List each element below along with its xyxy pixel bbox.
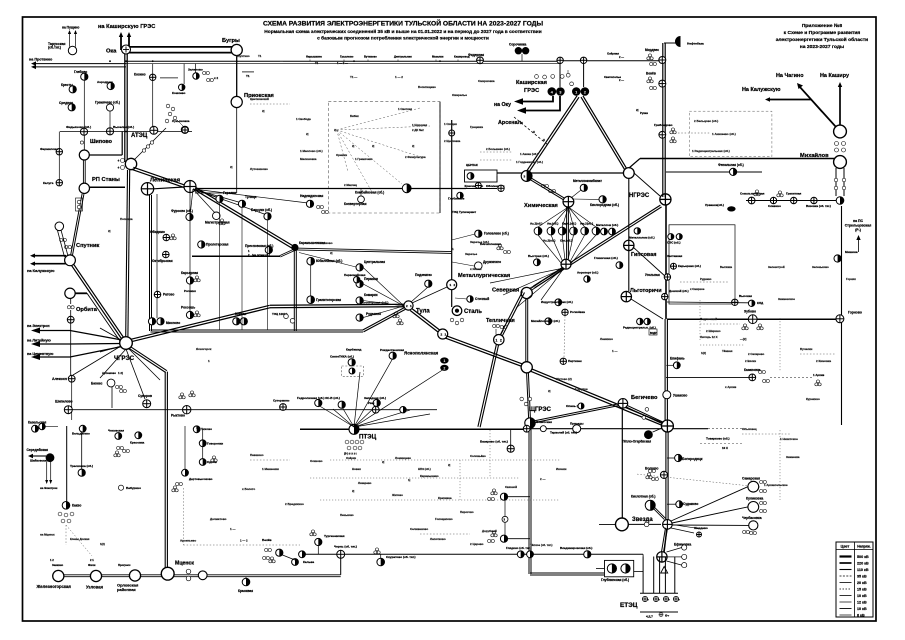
svg-text:Южная: Южная	[235, 312, 246, 316]
Ushakovo	[663, 391, 671, 399]
svg-text:х Смирное: х Смирное	[690, 287, 705, 291]
svg-text:Рыктово: Рыктово	[171, 414, 185, 418]
svg-text:1 —: 1 —	[612, 349, 617, 353]
Kashirskaya gen node	[521, 171, 532, 182]
Gribojedovo cluster	[659, 131, 666, 138]
svg-text:Ушаково: Ушаково	[673, 394, 687, 398]
svg-text:На Калужскую: На Калужскую	[742, 87, 781, 93]
Tula ring inner column	[156, 194, 158, 318]
Radiotsentralnaya	[637, 318, 643, 324]
svg-text:Прогресс: Прогресс	[118, 563, 131, 567]
svg-text:1(2): 1(2)	[100, 542, 105, 546]
svg-text:Бегичево: Бегичево	[631, 395, 658, 401]
svg-text:РП Станы: РП Станы	[92, 177, 120, 183]
svg-text:Глебово: Глебово	[74, 70, 87, 74]
transformer chains below bus	[543, 75, 547, 79]
svg-text:2|: 2|	[352, 489, 355, 493]
svg-text:Поповка: Поповка	[120, 217, 133, 221]
wire ChGRES-Mtsensk trunk	[130, 346, 167, 371]
svg-text:х Болото: х Болото	[242, 487, 255, 491]
svg-text:2|: 2|	[334, 128, 337, 132]
svg-text:Цветковский: Цветковский	[250, 97, 269, 101]
bus 409.7 east	[72, 409, 437, 411]
svg-text:Выселки (сб.): Выселки (сб.)	[113, 125, 134, 129]
svg-text:2 Щегловка: 2 Щегловка	[444, 139, 461, 143]
wire Oka south trunk	[126, 50, 128, 162]
svg-text:Глубнинская (сб.): Глубнинская (сб.)	[601, 578, 629, 582]
svg-text:Гидролизная (сб.) 6С-В (сб.): Гидролизная (сб.) 6С-В (сб.)	[297, 396, 340, 400]
svg-text:ПТЭЦ: ПТЭЦ	[359, 434, 377, 441]
svg-text:Аз.1(сб.): Аз.1(сб.)	[530, 222, 542, 226]
svg-text:Мишина: Мишина	[845, 250, 858, 254]
svg-text:1 Светлая: 1 Светлая	[398, 107, 412, 111]
svg-text:Руднево: Руднево	[700, 277, 712, 281]
svg-text:Бельдягино: Бельдягино	[72, 432, 90, 436]
svg-text:Шайковская: Шайковская	[30, 459, 48, 463]
svg-text:Славино: Славино	[768, 204, 781, 208]
svg-text:Стрельцовская: Стрельцовская	[845, 224, 872, 228]
svg-text:Заикино: Заикино	[52, 563, 64, 567]
svg-text:Карбамид: Карбамид	[346, 348, 361, 352]
svg-text:Кресты: Кресты	[61, 83, 73, 87]
svg-text:20 кВ: 20 кВ	[857, 581, 867, 585]
svg-text:на Пущино: на Пущино	[62, 26, 79, 30]
svg-text:Приложение №8: Приложение №8	[802, 23, 843, 29]
svg-text:2 Большево (сб.): 2 Большево (сб.)	[486, 147, 510, 151]
svg-text:2|: 2|	[448, 463, 451, 467]
svg-text:6 кВ: 6 кВ	[857, 613, 865, 617]
left mid cluster Tikhovo	[193, 426, 200, 433]
svg-text:Калуга: Калуга	[43, 181, 54, 185]
svg-text:Казановка: Казановка	[744, 368, 761, 372]
svg-text:Быстрая (сб.): Быстрая (сб.)	[528, 254, 549, 258]
node Kosino	[150, 74, 156, 80]
svg-text:Судаково: Судаково	[683, 502, 698, 506]
svg-text:Фенольная (сб.): Фенольная (сб.)	[718, 163, 744, 167]
svg-text:Металлокомбинат: Металлокомбинат	[573, 179, 602, 183]
svg-text:Кислородная (сб.): Кислородная (сб.)	[590, 203, 619, 207]
svg-text:Рождественская: Рождественская	[380, 348, 404, 352]
svg-text:Яснополянская: Яснополянская	[404, 351, 439, 356]
svg-text:Озёрки: Озёрки	[346, 456, 356, 460]
svg-text:Селиваново: Селиваново	[410, 527, 428, 531]
svg-text:Шипово: Шипово	[90, 139, 113, 145]
svg-text:Тёплое (сб. тяг.): Тёплое (сб. тяг.)	[530, 543, 552, 547]
svg-text:Фили: Фили	[88, 563, 96, 567]
svg-text:2|: 2|	[108, 229, 111, 233]
svg-text:1 — 2: 1 — 2	[240, 539, 248, 543]
wire Oka-Bugry 500kV	[126, 46, 232, 48]
svg-text:ГРЭС: ГРЭС	[524, 88, 539, 94]
svg-text:на Калужскую: на Калужскую	[27, 268, 55, 273]
generators G3 G4	[548, 87, 557, 96]
svg-text:х Ясная: х Ясная	[470, 267, 482, 271]
wire ATEC-Leninskaya 500kV	[133, 167, 188, 186]
wire: top bus 110kV across	[126, 60, 561, 62]
svg-text:10 Х: 10 Х	[722, 446, 728, 450]
bus 172 east	[666, 171, 762, 173]
svg-text:Богатищево: Богатищево	[418, 85, 436, 89]
svg-text:Лапотково: Лапотково	[430, 537, 446, 541]
svg-text:2|: 2|	[330, 251, 333, 255]
svg-text:1 Архангельское: 1 Архангельское	[764, 483, 788, 487]
svg-text:Дружинино: Дружинино	[483, 260, 501, 264]
svg-text:Косино: Косино	[134, 73, 146, 77]
PTEC rays	[318, 405, 354, 427]
svg-text:4,5,7: 4,5,7	[646, 615, 653, 619]
svg-text:Вытяжка: Вытяжка	[720, 265, 732, 269]
svg-text:Пирогово: Пирогово	[460, 510, 474, 514]
svg-text:500 кВ: 500 кВ	[857, 555, 869, 559]
legend table	[836, 542, 873, 617]
bus 554 Chern	[300, 553, 643, 555]
svg-text:Горелки: Горелки	[223, 191, 236, 195]
svg-text:Тулица: Тулица	[245, 195, 257, 199]
svg-text:Урванка(сб.): Урванка(сб.)	[705, 203, 724, 207]
bus 377 Kazanovka	[666, 376, 749, 378]
Shchekino dotted field	[330, 459, 560, 461]
svg-text:ТЭЦ Тулачермет: ТЭЦ Тулачермет	[452, 210, 477, 214]
Tula ring west side	[151, 195, 153, 331]
svg-text:Глядино (сб. тяг.): Глядино (сб. тяг.)	[506, 546, 531, 550]
svg-text:2 Кимовка: 2 Кимовка	[816, 359, 831, 363]
Khim fan to 6 substations	[538, 207, 568, 227]
svg-text:Пролетарская: Пролетарская	[206, 243, 228, 247]
svg-text:Арсеньево: Арсеньево	[180, 539, 196, 543]
node NGRES	[623, 168, 634, 179]
Elifan	[673, 362, 680, 369]
generators G1 G2	[572, 87, 581, 96]
svg-text:Дертовысоково: Дертовысоково	[189, 477, 213, 481]
svg-text:Каширская: Каширская	[516, 80, 547, 86]
Tula ring bottom	[151, 329, 364, 331]
svg-text:Кислотная (сб.): Кислотная (сб.)	[631, 495, 655, 499]
svg-text:Бабурино: Бабурино	[126, 486, 141, 490]
wire NGRES-Mikhailov 220kV	[640, 158, 836, 160]
svg-text:Клены Долкая: Клены Долкая	[70, 537, 90, 541]
svg-text:ЦЕРПАК: ЦЕРПАК	[466, 163, 478, 167]
svg-text:Ламкино: Ламкино	[600, 337, 613, 341]
svg-text:Лазарево: Лазарево	[358, 481, 372, 485]
svg-text:Спутник: Спутник	[76, 243, 99, 249]
svg-text:Сточный: Сточный	[475, 297, 489, 301]
svg-text:Металлолом (сб.): Металлолом (сб.)	[629, 236, 655, 240]
svg-text:Присады: Присады	[570, 422, 584, 426]
wire ShchGRES-Begichevo second	[533, 403, 622, 421]
svg-text:х 2: х 2	[214, 76, 218, 80]
Tula ring east side	[295, 250, 297, 331]
svg-text:Волово: Волово	[645, 467, 659, 471]
svg-text:Зеленьково: Зеленьково	[812, 265, 829, 269]
svg-text:(Р-): (Р-)	[855, 228, 861, 232]
svg-text:Дентральная: Дентральная	[394, 55, 412, 59]
svg-text:2: 2	[443, 366, 445, 370]
svg-text:Голощапово: Голощапово	[435, 517, 453, 521]
svg-text:1 Крутое: 1 Крутое	[575, 387, 588, 391]
svg-text:2 —: 2 —	[619, 55, 624, 59]
svg-text:Чеховская: Чеховская	[108, 429, 124, 433]
svg-text:Трасковка (сб.): Трасковка (сб.)	[70, 464, 93, 468]
wire Leninskaya-Tsemzavod bus 188	[196, 188, 466, 190]
svg-text:Осиново: Осиново	[310, 459, 323, 463]
svg-text:Самарская: Самарская	[742, 477, 760, 481]
svg-text:Алексин: Алексин	[52, 377, 67, 381]
node Khim hub 2	[561, 259, 571, 269]
svg-text:Ам.2(сб.): Ам.2(сб.)	[580, 222, 593, 226]
svg-text:1 Широкая: 1 Широкая	[412, 123, 427, 127]
svg-text:с базовым прогнозом потреблени: с базовым прогнозом потребления электрич…	[317, 35, 489, 42]
svg-text:Химическая: Химическая	[524, 203, 558, 209]
svg-text:Гранитогорская: Гранитогорская	[316, 298, 341, 302]
svg-text:Головлево (сб.): Головлево (сб.)	[484, 232, 509, 236]
svg-text:1 Свобода: 1 Свобода	[296, 117, 311, 121]
svg-text:2 Саларево: 2 Саларево	[748, 352, 764, 356]
svg-text:НГРЭС: НГРЭС	[629, 193, 650, 199]
svg-text:+: +	[118, 166, 120, 170]
svg-text:Октябрьская: Октябрьская	[152, 259, 173, 263]
svg-text:Долматово: Долматово	[210, 517, 227, 521]
svg-text:2|: 2|	[548, 389, 551, 393]
svg-text:2 —: 2 —	[619, 78, 624, 82]
svg-text:Тёмная: Тёмная	[722, 349, 733, 353]
svg-text:Какво: Какво	[72, 504, 81, 508]
svg-text:Сталь: Сталь	[464, 309, 482, 315]
svg-text:Лутовиново: Лутовиново	[250, 167, 268, 171]
wire ChGRES-Sputnik 500kV	[71, 265, 123, 341]
svg-text:Партизан: Партизан	[568, 359, 582, 363]
svg-text:Ясногорск: Ясногорск	[196, 347, 212, 351]
svg-text:1 Гордеевская (сб.): 1 Гордеевская (сб.)	[516, 160, 543, 164]
svg-text:1 Манаенки: 1 Манаенки	[262, 467, 279, 471]
svg-text:Заставная: Заставная	[667, 254, 683, 258]
node Teplo-Ogarevskaya	[644, 430, 653, 439]
svg-text:3: 3	[524, 175, 526, 179]
svg-text:1|: 1|	[408, 478, 411, 482]
wire Kashirskaya-NGRES heavy diagonal	[583, 96, 628, 170]
svg-text:Узловая: Узловая	[86, 585, 103, 590]
svg-text:Угольная: Угольная	[645, 273, 660, 277]
svg-text:Аз.2(сб.): Аз.2(сб.)	[543, 239, 555, 243]
node Kislotnaya	[645, 500, 655, 510]
svg-text:Комлево: Комлево	[172, 91, 186, 95]
svg-text:КЛД: КЛД	[757, 301, 764, 305]
svg-text:на Цементную: на Цементную	[27, 352, 54, 356]
svg-text:Новая: Новая	[352, 467, 361, 471]
node Tarusskaya	[68, 46, 76, 54]
svg-text:Подлесный: Подлесный	[700, 317, 717, 321]
svg-text:Нормальная схема электрических: Нормальная схема электрических соединени…	[264, 28, 541, 35]
svg-text:Кашировод: Кашировод	[454, 55, 470, 59]
node Teplichnaya	[494, 335, 504, 345]
svg-text:Мордвес: Мордвес	[645, 48, 659, 52]
svg-text:Люторь 12 Х: Люторь 12 Х	[700, 335, 718, 339]
wire Sputnik-RP Stany	[71, 194, 83, 256]
svg-text:Пресновская (сб.): Пресновская (сб.)	[245, 244, 273, 248]
node Sudakovo	[676, 501, 683, 508]
svg-text:Т1: Т1	[315, 61, 319, 65]
svg-text:Аэропорт (сб.): Аэропорт (сб.)	[577, 271, 598, 275]
svg-text:Сутормино: Сутормино	[273, 399, 290, 403]
svg-text:Михайлов: Михайлов	[800, 152, 829, 159]
svg-text:2|: 2|	[372, 144, 375, 148]
svg-text:районная: районная	[117, 587, 136, 592]
svg-text:Карамышево: Карамышево	[420, 474, 439, 478]
svg-text:Орг.(сб.): Орг.(сб.)	[560, 239, 572, 243]
svg-text:2 Бредихино: 2 Бредихино	[285, 502, 304, 506]
svg-text:2|: 2|	[382, 460, 385, 464]
svg-text:Бибик: Бибик	[350, 114, 359, 118]
svg-text:2 ДК №2: 2 ДК №2	[412, 128, 424, 132]
svg-text:2: 2	[500, 338, 502, 342]
svg-text:Епифань: Епифань	[670, 357, 685, 361]
svg-text:220 кВ: 220 кВ	[857, 561, 869, 565]
svg-text:Надеждинская: Надеждинская	[300, 194, 323, 198]
svg-text:Ожерелье: Ожерелье	[452, 93, 467, 97]
svg-text:Бизнес: Бизнес	[91, 382, 103, 386]
svg-text:2 Вялки: 2 Вялки	[745, 359, 756, 363]
svg-text:35 кВ: 35 кВ	[857, 574, 867, 578]
svg-text:Орешки: Орешки	[336, 153, 347, 157]
svg-text:Середейская: Середейская	[27, 448, 49, 452]
svg-text:на ПС: на ПС	[853, 219, 863, 223]
svg-text:Напряж.: Напряж.	[857, 545, 871, 549]
svg-text:На Чагино: На Чагино	[776, 73, 804, 79]
svg-text:Тарволей (сб. тяг.): Тарволей (сб. тяг.)	[550, 431, 577, 435]
svg-text:2 Ширино: 2 Ширино	[706, 329, 721, 333]
svg-text:1 Авиан (сб.): 1 Авиан (сб.)	[520, 152, 538, 156]
svg-text:Рогачёвка: Рогачёвка	[570, 310, 585, 314]
svg-text:на Каширскую ГРЭС: на Каширскую ГРЭС	[98, 24, 155, 30]
top-left cluster nodes	[81, 73, 88, 80]
svg-text:Орбита: Орбита	[76, 306, 98, 313]
Leninskaya SE fan nodes	[193, 189, 219, 198]
wire Tula-ShchGRES 500kV	[412, 309, 444, 334]
svg-text:Зеленстрой: Зеленстрой	[768, 265, 785, 269]
svg-text:Средняя: Средняя	[59, 101, 73, 105]
svg-text:Индустриальная (сб.): Индустриальная (сб.)	[541, 300, 573, 304]
Mtsensk bottom chain	[58, 574, 340, 576]
assorted small junction dots	[125, 131, 127, 133]
Neftebaza	[675, 36, 680, 47]
svg-text:Горняк: Горняк	[846, 277, 856, 281]
svg-text:Владимировская (сб.): Владимировская (сб.)	[560, 546, 592, 550]
svg-text:Цвет: Цвет	[841, 545, 850, 549]
node Stal	[452, 306, 462, 316]
bottom-left column	[66, 426, 68, 502]
ETEC feeders	[642, 557, 644, 594]
svg-text:Фидьяново (сб.): Фидьяново (сб.)	[66, 125, 91, 129]
svg-text:Тургеневская: Тургеневская	[324, 534, 345, 538]
svg-text:Грызлово: Грызлово	[340, 55, 354, 59]
svg-text:к Схеме и Программе развития: к Схеме и Программе развития	[784, 30, 861, 36]
svg-text:Вязовка (сб. тяг.): Вязовка (сб. тяг.)	[806, 204, 831, 208]
svg-text:Кальва: Кальва	[303, 560, 314, 564]
svg-text:Нефтебаза: Нефтебаза	[687, 42, 704, 46]
wire Kashirskaya-Khim heavy diagonal	[529, 97, 580, 173]
svg-text:+: +	[118, 159, 120, 163]
wire bus-173 to NGRES	[497, 172, 625, 174]
svg-text:Житово: Житово	[391, 493, 403, 497]
svg-text:Куракино: Куракино	[806, 397, 820, 401]
Zvezda east fan	[671, 487, 748, 521]
node Bogoroditsk	[675, 454, 682, 461]
wire Begichevo-Zvezda vertical	[621, 408, 623, 519]
svg-text:Соловьёво: Соловьёво	[470, 454, 486, 458]
svg-text:Грацевка: Грацевка	[470, 125, 483, 129]
svg-text:на Протвино: на Протвино	[29, 58, 53, 62]
svg-text:1 Никитское: 1 Никитское	[780, 437, 798, 441]
svg-text:2|: 2|	[636, 108, 639, 112]
svg-text:12 кВ: 12 кВ	[857, 600, 867, 604]
svg-text:15 кВ: 15 кВ	[857, 587, 867, 591]
svg-text:(сб.тяг.): (сб.тяг.)	[48, 46, 61, 50]
svg-text:Карб.(сб.): Карб.(сб.)	[562, 222, 576, 226]
svg-text:ВОДР: ВОДР	[650, 333, 657, 335]
bus Gornovo 319	[667, 318, 840, 320]
svg-text:Тёпло-Огарёвская: Тёпло-Огарёвская	[622, 440, 651, 444]
svg-text:Сокольническая: Сокольническая	[740, 192, 765, 196]
svg-text:Мценск: Мценск	[175, 561, 194, 567]
svg-text:Т1: Т1	[246, 74, 250, 78]
svg-text:2|: 2|	[352, 144, 355, 148]
node Khimicheskaya hub	[563, 196, 574, 207]
svg-text:Металлургическая: Металлургическая	[458, 273, 510, 279]
ChGRES south rays	[100, 349, 126, 378]
svg-text:Заречье: Заречье	[465, 252, 477, 256]
svg-text:Хомяково: Хомяково	[318, 241, 333, 245]
svg-text:Чернь (сб. тяг.): Чернь (сб. тяг.)	[334, 545, 357, 549]
wire ATEC-ChGRES trunk	[128, 170, 130, 338]
svg-text:Знаменка: Знаменка	[786, 455, 800, 459]
svg-text:1 2|: 1 2|	[118, 371, 123, 375]
svg-text:1: 1	[443, 359, 445, 363]
svg-text:Пеньково: Пеньково	[340, 513, 354, 517]
svg-text:Подземгаз: Подземгаз	[415, 273, 432, 277]
svg-text:Апухтино: Апухтино	[236, 54, 250, 58]
svg-text:электроэнергетики Тульской обл: электроэнергетики Тульской области	[776, 36, 868, 43]
svg-text:Комарки: Комарки	[364, 293, 378, 297]
svg-text:Т1: Т1	[258, 54, 262, 58]
svg-text:Фидерная: Фидерная	[468, 53, 484, 57]
svg-text:Первомайская: Первомайская	[344, 273, 366, 277]
svg-text:1 —: 1 —	[230, 527, 235, 531]
svg-text:1 Архив: 1 Архив	[813, 373, 824, 377]
svg-text:Советская: Советская	[536, 420, 552, 424]
Gipsovaya	[624, 240, 634, 250]
svg-text:1 Аникеево (сб.): 1 Аникеево (сб.)	[712, 132, 736, 136]
svg-text:Венёв: Венёв	[646, 72, 656, 76]
svg-text:СинтеТИКА (сб.): СинтеТИКА (сб.)	[330, 355, 354, 359]
node Efremovskaya hub	[657, 552, 667, 562]
wire Severnaya-Teplichnaya	[503, 293, 525, 336]
wire ATEC-Lukyanovka diagonal	[134, 128, 166, 160]
svg-text:10 кВ: 10 кВ	[857, 594, 867, 598]
node Severnaya	[521, 287, 532, 298]
Mordves Venev column	[659, 57, 666, 64]
node Fermilovo	[56, 149, 62, 155]
svg-text:1 Гремячево: 1 Гремячево	[355, 157, 373, 161]
svg-text:ЩГРЭС: ЩГРЭС	[529, 407, 552, 413]
svg-text:х Архив: х Архив	[725, 385, 736, 389]
svg-text:Звезда: Звезда	[632, 517, 653, 523]
svg-text:Михайловский (сб.): Михайловский (сб.)	[531, 319, 560, 323]
svg-text:Рукав: Рукав	[640, 111, 648, 115]
svg-text:Металлош (сб.): Металлош (сб.)	[596, 223, 618, 227]
svg-text:Северная: Северная	[492, 288, 519, 294]
svg-text:Ам.(сб.): Ам.(сб.)	[547, 222, 558, 226]
svg-text:х: х	[543, 138, 545, 142]
svg-text:Грибоедово: Грибоедово	[654, 123, 673, 127]
